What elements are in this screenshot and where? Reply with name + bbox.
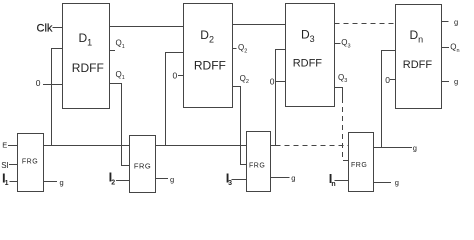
- wire Q1 output stub: [110, 50, 116, 52]
- wire clock chain D1 to D2: [110, 26, 184, 28]
- svg-text:I2: I2: [109, 170, 116, 187]
- Fredkin gate FRG3 box: [247, 132, 271, 192]
- wire D-input tap of D3 from feedback line: [276, 50, 286, 146]
- wire 0 input of D3: [276, 81, 286, 83]
- svg-text:Q1: Q1: [116, 39, 125, 50]
- wire g output stub top of Dn: [442, 21, 449, 23]
- wire 0 input of Dn: [390, 79, 396, 81]
- svg-text:FRG: FRG: [351, 162, 367, 169]
- svg-text:Dn: Dn: [410, 28, 424, 45]
- wire E input to FRG1: [8, 145, 18, 147]
- wire g output of FRG2: [156, 178, 169, 180]
- wire I1 input to FRG1: [10, 181, 18, 183]
- svg-text:In: In: [329, 171, 336, 188]
- wire D-input tap of D2 from feedback line: [166, 53, 184, 146]
- wire D-input tap of Dn from feedback line: [382, 51, 396, 148]
- svg-text:g: g: [454, 18, 458, 27]
- Fredkin gate FRG2 box: [130, 136, 156, 193]
- Fredkin gate FRG1 box: [18, 134, 44, 192]
- wire Q3-bar continuation down to FRGn input (dashed): [343, 98, 349, 161]
- svg-text:RDFF: RDFF: [403, 59, 433, 71]
- wire 0 input of D2: [178, 75, 184, 77]
- flip-flop Dn (RDFF) box: [396, 5, 442, 109]
- svg-text:Q3: Q3: [341, 38, 350, 49]
- svg-text:0: 0: [385, 75, 390, 85]
- svg-text:0: 0: [36, 78, 41, 88]
- svg-text:Qn: Qn: [450, 43, 459, 54]
- wire feedback line FRG2 to FRG3: [156, 145, 247, 147]
- Fredkin gate FRGn box: [349, 133, 374, 192]
- wire feedback line FRG3 to FRGn (dashed): [276, 145, 349, 147]
- flip-flop D2 (RDFF) box: [184, 4, 233, 108]
- svg-text:I1: I1: [2, 170, 9, 187]
- wire I2 input to FRG2: [116, 180, 130, 182]
- wire g output of FRG1: [44, 181, 58, 183]
- wire In input to FRGn: [335, 180, 349, 182]
- svg-text:RDFF: RDFF: [72, 61, 104, 75]
- svg-text:I3: I3: [226, 170, 232, 187]
- wire feedback line FRG3 to tap of D3: [271, 145, 276, 147]
- svg-text:FRG: FRG: [134, 161, 151, 170]
- svg-text:D1: D1: [79, 31, 93, 48]
- wire Qn output stub: [442, 47, 450, 49]
- svg-text:g: g: [454, 77, 458, 86]
- wire clock chain D2 to D3: [233, 24, 286, 26]
- wire Q3 output stub: [335, 43, 341, 45]
- wire g output of FRG3: [271, 177, 290, 179]
- svg-text:g: g: [291, 174, 295, 183]
- wire g output bottom of FRGn: [374, 182, 392, 184]
- flip-flop D1 (RDFF) box: [63, 4, 110, 109]
- wire Q2-bar from D2 down to FRG3 input: [233, 87, 247, 165]
- svg-text:E: E: [2, 141, 7, 150]
- wire Q1-bar from D1 down to FRG2 input: [110, 84, 130, 166]
- wire Q2 output stub: [233, 48, 237, 50]
- svg-text:Q3: Q3: [338, 73, 347, 84]
- svg-text:g: g: [60, 178, 64, 187]
- wire Q3-bar stub from D3: [335, 88, 343, 99]
- svg-text:Q2: Q2: [240, 74, 249, 85]
- wire feedback line FRG1 to FRG2: [44, 145, 130, 147]
- svg-text:RDFF: RDFF: [194, 59, 226, 73]
- wire D-input tap of D1 from feedback line: [52, 49, 63, 146]
- svg-text:FRG: FRG: [22, 158, 38, 165]
- svg-text:0: 0: [173, 71, 178, 81]
- flip-flop D3 (RDFF) box: [286, 4, 335, 107]
- wire g output stub bottom of Dn: [442, 81, 450, 83]
- svg-text:D2: D2: [200, 28, 214, 45]
- wire Clk input to D1: [53, 27, 63, 29]
- svg-text:g: g: [413, 144, 417, 153]
- wire SI input to FRG1: [9, 164, 18, 166]
- svg-text:D3: D3: [301, 27, 315, 44]
- svg-text:RDFF: RDFF: [293, 58, 323, 70]
- svg-text:g: g: [395, 178, 399, 187]
- wire clock chain D3 to Dn (dashed): [335, 23, 396, 25]
- svg-text:0: 0: [270, 76, 275, 86]
- svg-text:Clk: Clk: [37, 22, 53, 34]
- wire I3 input to FRG3: [232, 179, 247, 181]
- svg-text:g: g: [170, 175, 174, 184]
- svg-text:Q1: Q1: [116, 70, 125, 81]
- svg-text:SI: SI: [1, 161, 8, 170]
- svg-text:FRG: FRG: [249, 162, 265, 169]
- svg-text:Q2: Q2: [238, 43, 247, 54]
- wire feedback output of FRGn to g: [374, 147, 413, 149]
- wire 0 input of D1: [43, 84, 63, 86]
